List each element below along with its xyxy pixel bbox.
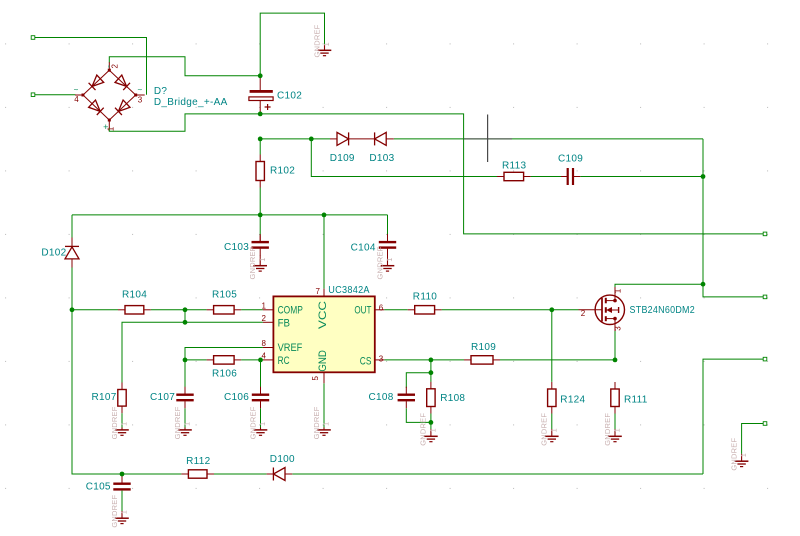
junction	[258, 137, 263, 142]
wire bridge minus to GNDREF loop	[109, 57, 260, 76]
power symbol GNDREF	[312, 24, 331, 57]
wire OUT row	[384, 309, 407, 311]
svg-text:6: 6	[379, 303, 384, 312]
svg-text:GNDREF: GNDREF	[312, 406, 321, 439]
wire CS row	[384, 359, 464, 361]
junction	[701, 174, 706, 179]
svg-text:R111: R111	[624, 394, 648, 405]
wire R107 ground	[121, 413, 123, 430]
diode D103	[375, 132, 394, 145]
resistor R104	[118, 306, 151, 314]
junction	[613, 358, 618, 363]
wire C107 drop	[184, 360, 186, 388]
diode D109	[330, 132, 375, 145]
resistor R111	[611, 382, 619, 414]
svg-text:D?: D?	[154, 86, 168, 97]
capacitor C104	[379, 234, 396, 256]
capacitor C107	[176, 387, 193, 409]
svg-text:1: 1	[122, 422, 129, 426]
svg-text:8: 8	[262, 339, 267, 348]
wire bottom rail right end	[703, 359, 763, 474]
svg-text:2: 2	[262, 314, 267, 323]
wire C102 top loop to ground	[260, 13, 324, 76]
svg-text:R107: R107	[92, 392, 117, 403]
svg-text:GNDREF: GNDREF	[375, 246, 384, 279]
resistor R105	[207, 306, 242, 314]
svg-text:VREF: VREF	[278, 342, 303, 354]
svg-text:VCC: VCC	[317, 301, 329, 329]
junction	[429, 358, 434, 363]
capacitor C104 stem	[387, 236, 389, 242]
resistor R113	[497, 172, 531, 180]
svg-text:UC3842A: UC3842A	[328, 285, 370, 296]
junction	[258, 358, 263, 363]
wire C108 loop top	[406, 373, 431, 388]
svg-text:OUT: OUT	[354, 304, 371, 316]
power symbol GNDREF	[603, 413, 622, 446]
wire FB row	[122, 322, 263, 382]
diode D102	[65, 238, 79, 268]
svg-text:1: 1	[615, 428, 622, 432]
wire VCC pin7	[323, 215, 325, 289]
svg-text:1: 1	[324, 42, 331, 46]
svg-text:GNDREF: GNDREF	[248, 246, 257, 279]
open wire end	[763, 232, 767, 236]
svg-text:GND: GND	[317, 350, 329, 372]
junction	[183, 320, 188, 325]
svg-text:1: 1	[741, 453, 748, 457]
svg-text:3: 3	[614, 326, 623, 331]
wire R113 C109 branch	[311, 139, 497, 177]
wire C104 drop	[387, 215, 389, 236]
svg-text:GNDREF: GNDREF	[110, 495, 119, 528]
wire R108 ground	[430, 422, 432, 429]
svg-text:GNDREF: GNDREF	[312, 24, 321, 57]
junction	[258, 213, 263, 218]
svg-text:COMP: COMP	[278, 304, 303, 316]
wire C106 ground	[260, 408, 262, 430]
wire bridge plus to HV rail	[109, 114, 763, 234]
svg-text:R106: R106	[212, 369, 237, 380]
graphical line vertical	[487, 115, 489, 163]
svg-text:GNDREF: GNDREF	[173, 406, 182, 439]
resistor R110	[408, 306, 442, 314]
svg-text:C107: C107	[150, 392, 175, 403]
power symbol GNDREF	[110, 406, 129, 439]
power symbol GNDREF	[248, 246, 267, 279]
wire gate pulldown R124	[551, 310, 553, 382]
svg-text:1: 1	[387, 258, 394, 262]
svg-text:GNDREF: GNDREF	[729, 438, 738, 471]
svg-text:D102: D102	[41, 248, 66, 259]
power symbol GNDREF	[110, 495, 129, 528]
svg-text:7: 7	[316, 287, 321, 296]
svg-text:1: 1	[324, 422, 331, 426]
svg-text:+: +	[103, 122, 108, 132]
junction	[322, 213, 327, 218]
svg-text:R108: R108	[440, 393, 465, 404]
wire COMP row	[72, 309, 118, 311]
junction	[701, 282, 706, 287]
capacitor C102	[249, 76, 273, 114]
svg-text:R104: R104	[122, 290, 147, 301]
svg-text:1: 1	[185, 422, 192, 426]
svg-text:RC: RC	[278, 355, 290, 367]
wire right vertical net	[703, 139, 763, 297]
wire right GNDREF stub	[742, 424, 764, 454]
capacitor C106	[252, 387, 269, 409]
svg-text:2: 2	[581, 309, 586, 318]
svg-text:C103: C103	[224, 242, 249, 253]
resistor R107	[118, 383, 126, 414]
svg-text:1: 1	[260, 258, 267, 262]
svg-text:R112: R112	[186, 456, 211, 467]
svg-text:1: 1	[260, 422, 267, 426]
svg-text:R105: R105	[212, 290, 237, 301]
wire diode row	[260, 138, 330, 140]
capacitor C109	[561, 168, 580, 185]
wire RC row	[185, 359, 207, 361]
bridge rectifier D?	[75, 62, 145, 128]
svg-text:GNDREF: GNDREF	[419, 413, 428, 446]
svg-text:1: 1	[614, 288, 623, 293]
svg-text:3: 3	[379, 355, 384, 364]
junction	[309, 137, 314, 142]
wire drain	[615, 284, 703, 287]
power symbol GNDREF	[248, 406, 267, 439]
wire R108 branch	[430, 360, 432, 382]
junction	[549, 307, 554, 312]
svg-text:~: ~	[137, 85, 142, 94]
wire R102 top	[259, 139, 261, 155]
resistor R108	[427, 382, 435, 414]
power symbol GNDREF	[173, 406, 192, 439]
svg-text:FB: FB	[278, 317, 290, 329]
resistor R124	[548, 382, 556, 414]
svg-text:5: 5	[311, 376, 320, 381]
op-amp U1 UC3842A	[263, 289, 384, 384]
svg-text:GNDREF: GNDREF	[248, 406, 257, 439]
graphical line horizontal	[464, 138, 512, 140]
svg-text:R110: R110	[413, 292, 438, 303]
svg-text:C105: C105	[86, 482, 111, 493]
svg-text:GNDREF: GNDREF	[540, 413, 549, 446]
svg-text:~: ~	[74, 85, 79, 94]
power symbol GNDREF	[312, 406, 331, 439]
wire AC input bottom	[35, 94, 76, 96]
svg-text:D109: D109	[330, 153, 355, 164]
open wire end	[31, 36, 35, 40]
svg-text:3: 3	[138, 95, 143, 104]
diode D100	[267, 468, 293, 481]
svg-text:1: 1	[431, 428, 438, 432]
svg-text:C108: C108	[369, 392, 394, 403]
wire R102 bottom	[259, 188, 261, 215]
open wire end	[763, 422, 767, 426]
wire FB COMP link	[184, 310, 186, 323]
capacitor C108	[398, 387, 415, 409]
svg-text:C109: C109	[558, 153, 583, 164]
wire source to CS node	[614, 331, 616, 360]
wire C106 drop	[260, 360, 262, 388]
svg-text:1: 1	[122, 510, 129, 514]
svg-text:R124: R124	[560, 394, 585, 405]
power symbol GNDREF	[419, 413, 438, 446]
capacitor C105	[113, 474, 130, 511]
resistor R102	[256, 155, 264, 188]
wire C103 drop	[259, 215, 261, 236]
power symbol GNDREF	[375, 246, 394, 279]
power symbol GNDREF	[729, 438, 748, 471]
power symbol GNDREF	[540, 413, 559, 446]
svg-text:D103: D103	[369, 153, 394, 164]
open wire end	[31, 93, 35, 97]
wire VCC rail	[72, 214, 388, 216]
junction	[183, 307, 188, 312]
svg-text:R102: R102	[270, 166, 295, 177]
svg-text:C102: C102	[277, 90, 302, 101]
svg-text:C104: C104	[351, 242, 376, 253]
resistor R109	[464, 356, 500, 364]
resistor R112	[181, 470, 214, 478]
svg-text:CS: CS	[360, 356, 372, 368]
capacitor C103	[252, 234, 269, 256]
junction	[70, 307, 75, 312]
svg-text:R113: R113	[502, 160, 527, 171]
wire GND pin5	[323, 383, 325, 430]
junction	[258, 73, 263, 78]
svg-text:1: 1	[551, 428, 558, 432]
svg-text:D_Bridge_+-AA: D_Bridge_+-AA	[154, 97, 228, 108]
open wire end	[763, 295, 767, 299]
svg-text:C106: C106	[224, 392, 249, 403]
transistor Q1 STB24N60DM2	[579, 287, 625, 331]
wire R111 ground	[614, 414, 616, 430]
svg-text:4: 4	[74, 95, 79, 104]
wire VREF row	[185, 348, 263, 360]
wire C108 loop bottom	[406, 408, 431, 422]
svg-text:-: -	[104, 65, 114, 68]
wire C107 ground	[184, 408, 186, 430]
svg-text:R109: R109	[471, 342, 496, 353]
wire AC input top	[35, 38, 147, 95]
junction	[258, 112, 263, 117]
capacitor C103 stem	[259, 236, 261, 242]
svg-text:GNDREF: GNDREF	[110, 406, 119, 439]
svg-text:STB24N60DM2: STB24N60DM2	[630, 305, 696, 316]
svg-text:D100: D100	[270, 454, 295, 465]
open wire end	[763, 357, 767, 361]
junction	[429, 420, 434, 425]
wire left loop and bottom rail	[71, 215, 73, 238]
junction	[429, 370, 434, 375]
svg-text:1: 1	[262, 301, 267, 310]
resistor R106	[207, 356, 242, 364]
junction	[120, 472, 125, 477]
svg-text:GNDREF: GNDREF	[603, 413, 612, 446]
junction	[183, 358, 188, 363]
